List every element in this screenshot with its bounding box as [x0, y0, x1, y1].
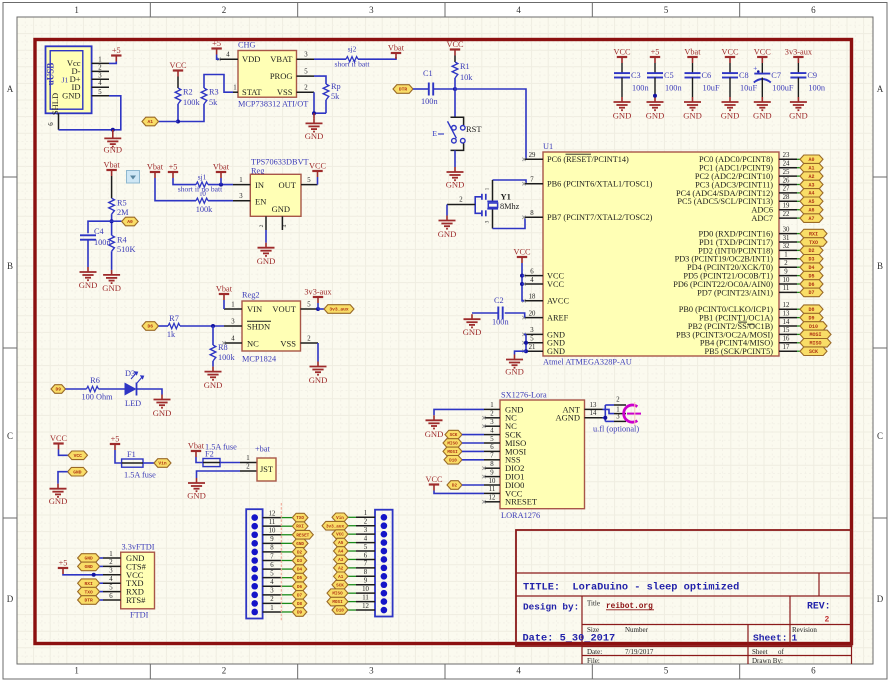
svg-text:2: 2	[98, 64, 102, 71]
svg-text:3: 3	[364, 527, 368, 534]
svg-text:29: 29	[529, 152, 536, 159]
svg-text:GND: GND	[463, 327, 482, 337]
svg-text:GND: GND	[438, 229, 457, 239]
svg-text:RESET: RESET	[296, 533, 309, 538]
svg-text:VCC: VCC	[613, 48, 631, 57]
svg-text:3: 3	[490, 419, 494, 426]
svg-text:GND: GND	[102, 283, 121, 293]
svg-text:2: 2	[307, 335, 311, 342]
svg-text:GND: GND	[187, 491, 206, 501]
svg-text:10uF: 10uF	[703, 84, 720, 93]
svg-text:2: 2	[825, 616, 830, 625]
svg-text:11: 11	[489, 486, 496, 493]
svg-text:RTS#: RTS#	[126, 595, 146, 605]
svg-text:2: 2	[490, 411, 494, 418]
svg-text:Number: Number	[625, 626, 649, 634]
svg-text:2: 2	[259, 224, 265, 227]
svg-text:6: 6	[811, 5, 816, 15]
svg-text:GND: GND	[446, 180, 465, 190]
svg-text:R4: R4	[117, 236, 128, 245]
svg-text:GND: GND	[789, 111, 808, 121]
svg-text:2: 2	[109, 559, 113, 566]
svg-text:5k: 5k	[209, 98, 218, 107]
svg-text:Atmel ATMEGA328P-AU: Atmel ATMEGA328P-AU	[543, 358, 632, 367]
svg-text:D6: D6	[147, 324, 153, 330]
svg-text:VCC: VCC	[754, 48, 772, 57]
svg-text:3: 3	[616, 413, 620, 420]
svg-text:MISO: MISO	[447, 442, 458, 447]
svg-text:20: 20	[529, 310, 536, 317]
svg-text:GND: GND	[425, 429, 444, 439]
svg-text:SCK: SCK	[336, 583, 344, 588]
svg-text:A3: A3	[338, 558, 344, 563]
svg-text:TPS70633DBVT: TPS70633DBVT	[251, 158, 309, 167]
svg-text:7: 7	[530, 177, 534, 184]
svg-text:GND: GND	[296, 542, 304, 547]
svg-text:4: 4	[98, 80, 102, 87]
svg-text:A6: A6	[808, 208, 814, 214]
svg-text:AGND: AGND	[555, 413, 580, 423]
svg-text:A0: A0	[808, 157, 814, 163]
svg-text:D9: D9	[55, 387, 61, 393]
svg-text:1.5A fuse: 1.5A fuse	[124, 471, 156, 480]
svg-text:3v3_aux: 3v3_aux	[326, 524, 344, 529]
svg-text:100n: 100n	[632, 84, 649, 93]
svg-text:D3: D3	[125, 369, 135, 378]
svg-text:Sheet:: Sheet:	[753, 632, 788, 643]
svg-text:C1: C1	[423, 69, 433, 78]
svg-text:Vbat: Vbat	[104, 161, 121, 170]
svg-text:D: D	[7, 594, 14, 604]
svg-text:TXO: TXO	[296, 516, 304, 521]
svg-text:A5: A5	[808, 199, 814, 205]
svg-text:D8: D8	[808, 307, 814, 313]
svg-text:24: 24	[783, 161, 790, 168]
svg-text:Vbat: Vbat	[147, 163, 164, 172]
svg-text:5k: 5k	[331, 92, 340, 101]
svg-text:D4: D4	[297, 568, 303, 573]
svg-text:MCP738312 ATI/OT: MCP738312 ATI/OT	[238, 100, 308, 109]
svg-text:Reg2: Reg2	[242, 291, 260, 300]
svg-text:R6: R6	[90, 376, 100, 385]
svg-text:STAT: STAT	[242, 87, 262, 97]
svg-text:VCC: VCC	[74, 453, 83, 459]
svg-text:2: 2	[222, 5, 227, 15]
svg-text:GND: GND	[505, 367, 524, 377]
svg-text:+bat: +bat	[255, 445, 271, 454]
svg-text:1: 1	[490, 402, 493, 409]
svg-text:D5: D5	[297, 576, 303, 581]
svg-text:MOSI: MOSI	[447, 450, 458, 455]
svg-text:11: 11	[362, 594, 369, 601]
svg-text:2: 2	[616, 396, 620, 403]
svg-text:Drawn By:: Drawn By:	[752, 657, 783, 665]
svg-text:4: 4	[282, 224, 288, 227]
svg-text:GND: GND	[79, 280, 98, 290]
svg-text:D6: D6	[808, 282, 814, 288]
svg-text:R3: R3	[209, 88, 219, 97]
svg-text:+5: +5	[651, 48, 660, 57]
svg-text:File:: File:	[587, 657, 600, 665]
svg-text:3: 3	[98, 72, 102, 79]
svg-text:Date:: Date:	[587, 648, 602, 656]
svg-text:MISO: MISO	[332, 592, 343, 597]
svg-text:10uF: 10uF	[740, 84, 757, 93]
svg-text:1: 1	[364, 510, 367, 517]
svg-text:Rp: Rp	[331, 82, 341, 91]
svg-text:15: 15	[783, 327, 790, 334]
svg-text:+: +	[753, 64, 757, 73]
svg-text:8: 8	[490, 461, 494, 468]
svg-text:1: 1	[784, 252, 787, 259]
svg-text:7: 7	[364, 561, 368, 568]
svg-text:B: B	[877, 261, 883, 271]
svg-text:1: 1	[231, 301, 234, 308]
svg-text:VCC: VCC	[446, 40, 464, 49]
svg-text:7: 7	[270, 553, 274, 560]
svg-text:4: 4	[270, 579, 274, 586]
svg-text:Vbat: Vbat	[684, 48, 701, 57]
svg-text:C5: C5	[664, 71, 674, 80]
svg-text:4: 4	[226, 52, 230, 59]
svg-text:10: 10	[362, 586, 369, 593]
svg-text:9: 9	[784, 268, 788, 275]
svg-text:GND: GND	[683, 111, 702, 121]
svg-text:E: E	[432, 129, 437, 138]
svg-text:PB7 (PCINT7/XTAL2/TOSC2): PB7 (PCINT7/XTAL2/TOSC2)	[547, 213, 653, 222]
svg-text:22: 22	[783, 211, 790, 218]
svg-text:OUT: OUT	[279, 180, 297, 190]
svg-text:11: 11	[783, 285, 790, 292]
svg-text:3: 3	[485, 220, 491, 223]
svg-text:B: B	[7, 261, 13, 271]
svg-text:MOSI: MOSI	[809, 332, 821, 338]
svg-text:4: 4	[109, 576, 113, 583]
svg-text:GND: GND	[62, 91, 80, 101]
svg-text:6: 6	[490, 444, 494, 451]
svg-text:GND: GND	[753, 111, 772, 121]
svg-text:Vbat: Vbat	[188, 442, 205, 451]
svg-text:3v3-aux: 3v3-aux	[785, 48, 813, 57]
svg-text:SCK: SCK	[809, 349, 818, 355]
svg-text:Design by:: Design by:	[523, 602, 579, 613]
svg-text:5: 5	[270, 570, 274, 577]
svg-text:12: 12	[269, 510, 276, 517]
svg-text:SHLD: SHLD	[50, 93, 60, 115]
svg-text:4: 4	[516, 666, 521, 676]
svg-text:sj2: sj2	[348, 45, 357, 54]
svg-text:C2: C2	[494, 296, 504, 305]
svg-text:100k: 100k	[218, 353, 235, 362]
svg-text:VBAT: VBAT	[270, 54, 293, 64]
svg-text:A4: A4	[808, 191, 814, 197]
svg-text:A2: A2	[338, 566, 344, 571]
svg-text:D9: D9	[808, 315, 814, 321]
svg-text:VCC: VCC	[169, 61, 187, 70]
svg-text:7/19/2017: 7/19/2017	[625, 648, 654, 656]
svg-text:4: 4	[231, 335, 235, 342]
svg-text:4: 4	[490, 427, 494, 434]
svg-text:10k: 10k	[460, 73, 473, 82]
svg-text:MOSI: MOSI	[332, 600, 343, 605]
svg-text:Vin: Vin	[158, 461, 167, 467]
svg-text:2: 2	[246, 463, 250, 470]
svg-text:100k: 100k	[196, 205, 213, 214]
svg-text:11: 11	[269, 519, 276, 526]
svg-text:GND: GND	[646, 111, 665, 121]
svg-text:31: 31	[783, 235, 790, 242]
svg-text:D10: D10	[809, 324, 818, 330]
svg-text:10: 10	[269, 528, 276, 535]
svg-text:5: 5	[304, 69, 308, 76]
svg-text:RXI: RXI	[296, 525, 304, 530]
svg-text:1: 1	[792, 632, 798, 643]
svg-text:9: 9	[364, 578, 368, 585]
svg-text:VOUT: VOUT	[272, 304, 296, 314]
svg-text:30: 30	[783, 226, 790, 233]
svg-text:2: 2	[304, 85, 308, 92]
svg-text:PC6 (RESET/PCINT14): PC6 (RESET/PCINT14)	[547, 155, 629, 164]
svg-text:4: 4	[530, 277, 534, 284]
svg-text:short if batt: short if batt	[334, 60, 370, 69]
svg-text:D2: D2	[452, 484, 458, 489]
svg-text:12: 12	[362, 603, 369, 610]
svg-text:uUSB: uUSB	[46, 63, 56, 86]
svg-text:3: 3	[270, 588, 274, 595]
svg-text:1: 1	[74, 666, 79, 676]
svg-text:12: 12	[489, 495, 496, 502]
svg-text:EN: EN	[255, 196, 266, 206]
svg-text:C3: C3	[631, 71, 641, 80]
svg-text:C: C	[877, 431, 883, 441]
svg-text:VCC: VCC	[513, 248, 531, 257]
svg-text:5: 5	[109, 584, 113, 591]
svg-text:100k: 100k	[183, 98, 200, 107]
svg-text:8: 8	[364, 569, 368, 576]
svg-text:C7: C7	[771, 71, 781, 80]
svg-text:5: 5	[664, 666, 669, 676]
svg-text:Vin: Vin	[336, 516, 344, 521]
svg-text:ADC7: ADC7	[751, 214, 773, 223]
svg-text:GND: GND	[305, 131, 324, 141]
svg-text:F1: F1	[127, 450, 136, 459]
svg-text:28: 28	[783, 194, 790, 201]
svg-text:3: 3	[369, 5, 374, 15]
svg-text:7: 7	[490, 453, 494, 460]
svg-text:100n: 100n	[665, 84, 682, 93]
svg-text:4: 4	[516, 5, 521, 15]
svg-text:GND: GND	[257, 256, 276, 266]
svg-text:1: 1	[98, 56, 101, 63]
svg-text:1k: 1k	[167, 330, 176, 339]
svg-text:VIN: VIN	[247, 304, 262, 314]
svg-text:TXO: TXO	[84, 589, 93, 595]
svg-text:VCC: VCC	[336, 533, 344, 538]
svg-text:Date: 5_30_2017: Date: 5_30_2017	[523, 632, 616, 644]
svg-text:1: 1	[239, 177, 242, 184]
svg-text:6: 6	[364, 552, 368, 559]
svg-text:R5: R5	[117, 199, 127, 208]
svg-text:C4: C4	[94, 227, 105, 236]
svg-text:VSS: VSS	[280, 338, 296, 348]
svg-text:D3: D3	[808, 257, 814, 263]
svg-text:5: 5	[307, 301, 311, 308]
svg-text:6: 6	[811, 666, 816, 676]
svg-text:2: 2	[364, 519, 368, 526]
svg-text:6: 6	[270, 562, 274, 569]
svg-text:GND: GND	[84, 556, 93, 562]
svg-text:6: 6	[109, 593, 113, 600]
svg-text:2: 2	[222, 666, 227, 676]
svg-text:+5: +5	[212, 39, 221, 48]
svg-text:A2: A2	[808, 174, 814, 180]
svg-text:R2: R2	[183, 88, 193, 97]
svg-text:R8: R8	[218, 343, 228, 352]
svg-text:GND: GND	[272, 204, 290, 214]
svg-text:100 Ohm: 100 Ohm	[81, 393, 113, 402]
svg-text:GND: GND	[103, 145, 122, 155]
svg-text:R7: R7	[169, 314, 179, 323]
svg-text:1: 1	[616, 406, 619, 413]
svg-text:GND: GND	[721, 111, 740, 121]
svg-text:25: 25	[783, 169, 790, 176]
svg-text:2: 2	[784, 260, 788, 267]
svg-text:IN: IN	[255, 180, 264, 190]
svg-text:3: 3	[304, 52, 308, 59]
svg-text:Vbat: Vbat	[216, 285, 233, 294]
svg-text:MCP1824: MCP1824	[242, 355, 277, 364]
svg-text:23: 23	[783, 152, 790, 159]
svg-text:GND: GND	[613, 111, 632, 121]
svg-text:3: 3	[369, 666, 374, 676]
svg-text:C6: C6	[702, 71, 712, 80]
svg-text:r0: r0	[200, 190, 206, 198]
svg-text:D10: D10	[449, 458, 457, 463]
svg-text:3: 3	[231, 318, 235, 325]
svg-text:VCC: VCC	[309, 162, 327, 171]
svg-text:8: 8	[270, 545, 274, 552]
svg-text:D2: D2	[297, 550, 303, 555]
svg-text:LED: LED	[125, 399, 141, 408]
svg-text:10: 10	[783, 277, 790, 284]
svg-text:TITLE: LoraDuino - sleep opti: TITLE: LoraDuino - sleep optimized	[523, 582, 739, 594]
svg-text:NRESET: NRESET	[505, 497, 538, 507]
svg-text:RST: RST	[466, 124, 482, 134]
svg-text:u.fl (optional): u.fl (optional)	[593, 425, 639, 434]
svg-text:NC: NC	[247, 338, 259, 348]
svg-text:PB5 (SCK/PCINT5): PB5 (SCK/PCINT5)	[705, 347, 774, 356]
svg-text:D2: D2	[808, 248, 814, 254]
svg-text:100uF: 100uF	[772, 84, 794, 93]
svg-text:LORA1276: LORA1276	[501, 511, 540, 520]
svg-text:19: 19	[783, 203, 790, 210]
svg-text:100n: 100n	[421, 97, 438, 106]
svg-text:1: 1	[109, 551, 112, 558]
svg-text:U1: U1	[543, 142, 553, 151]
svg-text:3: 3	[109, 568, 113, 575]
svg-text:A: A	[877, 84, 884, 94]
svg-text:5: 5	[364, 544, 368, 551]
svg-text:16: 16	[783, 336, 790, 343]
svg-text:DTR: DTR	[84, 598, 93, 604]
svg-text:+5: +5	[111, 435, 120, 444]
svg-text:8Mhz: 8Mhz	[500, 202, 520, 211]
svg-text:8: 8	[530, 210, 534, 217]
svg-text:AREF: AREF	[547, 314, 569, 323]
svg-text:D6: D6	[297, 585, 303, 590]
svg-text:9: 9	[490, 469, 494, 476]
svg-text:AVCC: AVCC	[547, 297, 569, 306]
svg-text:D5: D5	[808, 273, 814, 279]
svg-text:of: of	[778, 648, 785, 656]
svg-text:2: 2	[459, 197, 463, 204]
svg-text:D: D	[877, 594, 884, 604]
svg-text:RXI: RXI	[809, 231, 818, 237]
svg-text:GND: GND	[204, 380, 223, 390]
svg-text:12: 12	[783, 302, 790, 309]
svg-text:100n: 100n	[94, 238, 111, 247]
svg-text:+5: +5	[59, 559, 68, 568]
svg-text:Y1: Y1	[501, 192, 511, 202]
svg-text:1: 1	[74, 5, 79, 15]
svg-text:3v3-aux: 3v3-aux	[304, 288, 332, 297]
svg-text:GND: GND	[84, 564, 93, 570]
svg-text:C8: C8	[739, 71, 749, 80]
svg-text:27: 27	[783, 186, 790, 193]
svg-text:5: 5	[98, 89, 102, 96]
svg-text:A1: A1	[147, 119, 153, 125]
svg-text:sj1: sj1	[198, 173, 207, 182]
svg-text:3v3_aux: 3v3_aux	[329, 307, 349, 313]
svg-text:5: 5	[530, 336, 534, 343]
svg-text:C: C	[7, 431, 13, 441]
svg-text:FTDI: FTDI	[130, 611, 149, 620]
svg-text:Sheet: Sheet	[752, 648, 768, 656]
svg-text:3.3vFTDI: 3.3vFTDI	[122, 542, 155, 551]
svg-text:13: 13	[590, 402, 597, 409]
svg-text:VCC: VCC	[721, 48, 739, 57]
svg-text:DTR: DTR	[399, 87, 408, 93]
svg-text:A1: A1	[808, 166, 814, 172]
svg-text:SX1276-Lora: SX1276-Lora	[501, 391, 547, 400]
svg-text:14: 14	[783, 319, 790, 326]
svg-text:VCC: VCC	[425, 475, 443, 484]
svg-text:F2: F2	[205, 450, 214, 459]
svg-text:1: 1	[233, 85, 236, 92]
svg-text:PB6 (PCINT6/XTAL1/TOSC1): PB6 (PCINT6/XTAL1/TOSC1)	[547, 180, 653, 189]
svg-text:GND: GND	[547, 347, 565, 356]
svg-text:J1: J1	[62, 76, 69, 85]
svg-text:A5: A5	[338, 541, 344, 546]
svg-text:A7: A7	[808, 216, 814, 222]
svg-text:26: 26	[783, 177, 790, 184]
svg-text:GND: GND	[73, 469, 82, 475]
svg-text:32: 32	[783, 243, 790, 250]
svg-text:GND: GND	[309, 375, 328, 385]
svg-text:D9: D9	[297, 611, 303, 616]
svg-text:1: 1	[246, 455, 249, 462]
svg-text:PD7 (PCINT23/AIN1): PD7 (PCINT23/AIN1)	[697, 288, 773, 297]
svg-text:D7: D7	[297, 593, 303, 598]
svg-text:JST: JST	[260, 465, 273, 474]
svg-text:+5: +5	[112, 46, 121, 55]
svg-text:D4: D4	[808, 265, 814, 271]
svg-text:GND: GND	[153, 408, 172, 418]
svg-text:1: 1	[270, 605, 273, 612]
svg-text:17: 17	[783, 344, 790, 351]
svg-text:13: 13	[783, 310, 790, 317]
svg-text:GND: GND	[49, 496, 68, 506]
